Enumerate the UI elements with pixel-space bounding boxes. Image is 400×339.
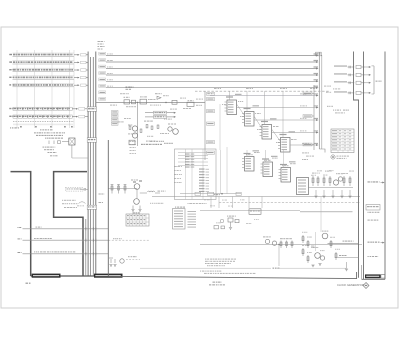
note text under table: [40, 129, 41, 130]
dashed continuation of wire 2: [108, 239, 150, 241]
transistor Q3: [173, 129, 179, 135]
IC U2: [242, 105, 259, 126]
misc labels mid cluster: [120, 93, 122, 94]
wire destination labels stack: [99, 52, 106, 100]
box on wire: [249, 209, 261, 215]
vertical aux x=220: [219, 104, 221, 150]
block B1 outline: [175, 149, 217, 200]
svg-text:CLOCK GENERATOR: CLOCK GENERATOR: [337, 283, 364, 287]
bottom small parts: [0, 0, 1, 1]
resistor RA: [129, 126, 131, 129]
cluster 2 wire out y=257.5: [338, 257, 359, 259]
bus top labels: [98, 41, 100, 42]
second cascade labels: [246, 154, 247, 155]
cluster 2 resistors: [302, 235, 337, 263]
component box A1: [124, 100, 130, 104]
bracket for cable: [373, 66, 375, 94]
resistors R10 R11 R12: [111, 185, 127, 194]
small parts row y=124-130: [146, 125, 148, 128]
bus label box 2: [87, 138, 96, 142]
cascade aux labels: [238, 101, 239, 102]
diamond symbol: [363, 283, 369, 289]
table lower row A (boxes): [13, 107, 72, 110]
top small label near rail: [207, 92, 215, 95]
top right marks above rails: [302, 152, 304, 153]
output wire U3: [272, 132, 317, 134]
capacitors above Q4: [133, 181, 142, 183]
component A4 diode: [157, 96, 161, 99]
component box A3: [140, 99, 147, 104]
cluster 1 wire y=187.5: [309, 187, 354, 189]
drop wire x=220.5: [220, 150, 222, 194]
wire y=193 with inductor L1: [140, 192, 147, 194]
IC U5: [242, 150, 259, 171]
small marks under arc: [77, 204, 79, 207]
net label box 2: [366, 205, 380, 211]
dashed bus y=202.5: [219, 202, 360, 204]
component box A6: [172, 100, 177, 104]
wire into bus from crystal area: [72, 157, 88, 159]
end label: [273, 268, 275, 269]
terminal ticks on column: [314, 93, 319, 144]
labels along bottom mid wires: [204, 198, 206, 201]
component box A5: [187, 102, 194, 106]
connector column pair at x=83-86: [85, 219, 87, 276]
interface wire 1: [23, 228, 109, 230]
B1 inner wires: [178, 153, 208, 166]
transistor Q1: [132, 126, 137, 131]
notes line pair: [200, 271, 201, 272]
bus vertical pair left: [87, 52, 89, 277]
net label arrow 5: [368, 242, 370, 243]
wire y=244.5: [200, 244, 362, 246]
cluster under mid wires circle: [220, 219, 224, 223]
component rows between rails: [334, 65, 371, 94]
table caption left: [10, 127, 11, 128]
net label 4: [368, 220, 370, 221]
left edge labels: [99, 194, 101, 195]
table lower row B (boxes): [13, 115, 72, 118]
labels under U9 and near connector list: [174, 165, 177, 168]
IC U7: [279, 161, 296, 182]
table grid vertical lines: [17, 50, 74, 128]
table row arrows to bus: [74, 54, 88, 87]
table dotted separator: [12, 120, 15, 123]
interface wire 2: [23, 239, 109, 241]
cascade connect wires: [237, 104, 281, 142]
table row 1 text: [13, 54, 15, 56]
right rail B: [363, 52, 365, 280]
B1 inner component column: [199, 169, 209, 193]
terminal top box: [316, 52, 322, 56]
cluster 1 grounds: [316, 190, 350, 196]
bus label box 1: [87, 107, 96, 111]
transistor Q5: [134, 199, 140, 205]
dashed select box: [66, 187, 84, 191]
cluster 2 grounds: [346, 262, 348, 269]
wire pair boxed labels mid: [154, 111, 167, 114]
right board name bar: [365, 274, 381, 278]
parts near x=214 y=226: [214, 226, 225, 229]
output wire labels: [300, 92, 302, 95]
vertical feed to Q8: [320, 197, 322, 232]
output wire row y=95.5: [210, 95, 317, 97]
label at jog: [327, 106, 329, 107]
board bottom border left: [31, 275, 97, 277]
IC box left of cluster: [297, 178, 309, 195]
B1 inner verticals: [186, 149, 203, 200]
wire label mid: [113, 238, 114, 239]
row header stubs left: [9, 54, 12, 55]
table row 4 text: [13, 77, 14, 79]
connector table: [173, 209, 186, 230]
middle board left border: [107, 140, 109, 276]
labels near rail mid: [333, 110, 334, 111]
right column text stack x=130: [130, 140, 131, 143]
middle board bottom border: [108, 272, 356, 279]
left rail label boxes: [207, 98, 215, 155]
wire y=210.5: [200, 210, 300, 212]
label stack left x=114: [112, 111, 119, 126]
wire y=188.5 from left border: [108, 188, 137, 190]
P/O text bottom left: [26, 283, 28, 284]
IC U6: [261, 156, 278, 177]
wire y=211.8 right: [300, 211, 353, 213]
table axis numbers: [20, 126, 73, 128]
left rail x=205: [204, 91, 206, 160]
net label 6: [368, 256, 369, 257]
dashed clock line: [195, 90, 330, 92]
B1 bottom wire row: [180, 193, 241, 195]
vertical drop x=137.5: [137, 103, 139, 147]
resistors on output: [280, 241, 293, 249]
truth table box: [126, 214, 149, 226]
table row 5 text: [13, 84, 15, 86]
B1 bottom-left tiny text: [150, 203, 151, 204]
table tick marks: [14, 124, 72, 126]
circled note symbol: [331, 155, 335, 159]
junction dots on wire: [137, 102, 167, 103]
long wire y=196.5: [152, 196, 360, 198]
board name bar left: [32, 274, 61, 278]
bus label box 3: [87, 205, 96, 209]
text labels below: [43, 147, 45, 148]
cluster 2 transistor Q9: [315, 253, 321, 259]
transistor Q7: [272, 241, 276, 245]
drop wire x=227: [226, 147, 228, 194]
crystal wires: [62, 141, 69, 143]
small parts row: [49, 141, 61, 145]
label above wire: [126, 87, 128, 88]
bottom-center parts above border: [109, 258, 124, 263]
board outline left segment: [11, 172, 31, 276]
faint wire y=268: [140, 267, 271, 269]
output wire U2: [254, 119, 317, 121]
B1 title labels: [150, 141, 153, 142]
interface wire 3: [23, 253, 109, 255]
right rail C: [384, 52, 386, 280]
figure caption bottom center: [213, 282, 215, 283]
transistor Q6: [265, 239, 269, 243]
bus vertical pair right: [92, 57, 94, 276]
analog cluster 1 resistors: [312, 176, 351, 186]
table row 3 text: [13, 69, 16, 71]
drop x=279 to ref: [278, 245, 280, 267]
notes paragraph: [205, 259, 207, 260]
logic truth table: [331, 129, 354, 153]
crystal Y1: [69, 138, 75, 145]
clock drops second cascade: [247, 150, 284, 168]
output wire U4: [290, 144, 317, 146]
clock drops to ICs: [230, 91, 284, 137]
table arrows rows A/B to bus: [72, 108, 88, 118]
right analog labels: [311, 174, 314, 177]
analog cluster 1 transistors: [333, 180, 338, 185]
IC U3: [260, 118, 277, 139]
connector table text col: [188, 211, 197, 228]
IC U1: [225, 94, 242, 115]
board name bar middle: [94, 274, 123, 278]
cluster 1 top labels: [312, 173, 315, 174]
wire main at y=102.5: [96, 102, 205, 104]
terminal column at line ends: [318, 52, 320, 149]
vertical drops from mid bus: [211, 197, 262, 209]
component box A2: [132, 100, 136, 104]
dashes right of parts: [126, 259, 140, 261]
connector pin ticks on wires: [83, 227, 96, 255]
right bottom border: [362, 278, 386, 280]
wire Q4-Q5: [136, 189, 138, 198]
right column inner edge: [361, 265, 363, 279]
cluster bottom boxes: [129, 140, 135, 145]
transistor Q4: [134, 184, 140, 190]
long signal lines to right: [106, 55, 319, 89]
right rail A (with jog): [354, 52, 359, 278]
output wire U1: [237, 107, 317, 109]
net label 3: [368, 212, 369, 213]
table row 2 text: [13, 61, 15, 63]
B1 left pin stack: [185, 154, 194, 168]
faint wire segment 2: [277, 267, 346, 269]
board outline right segment: [54, 172, 87, 276]
curved arrow: [79, 202, 86, 204]
jog in rail A at y=211: [353, 205, 359, 215]
right small box: [381, 275, 385, 278]
IC U4: [278, 131, 295, 152]
long line start labels: [107, 53, 109, 56]
small cap pair: [80, 188, 88, 191]
vertical feed to Q9: [315, 232, 317, 251]
net label arrow 1: [368, 181, 370, 182]
cluster labels left of bus: [62, 200, 63, 201]
transistor Q2: [132, 133, 137, 138]
cluster 2 transistor Q8: [322, 233, 328, 239]
left vertical x=314 w/ stubs: [313, 85, 315, 150]
cluster 2 wire out y=243.3: [328, 242, 359, 244]
misc small caps cluster2: [311, 246, 315, 247]
bottom parts under Q5: [133, 206, 140, 210]
table: signal/timing chart rows: [13, 53, 75, 87]
small cluster below: [228, 218, 239, 227]
terminal column bottom jog: [319, 149, 325, 153]
